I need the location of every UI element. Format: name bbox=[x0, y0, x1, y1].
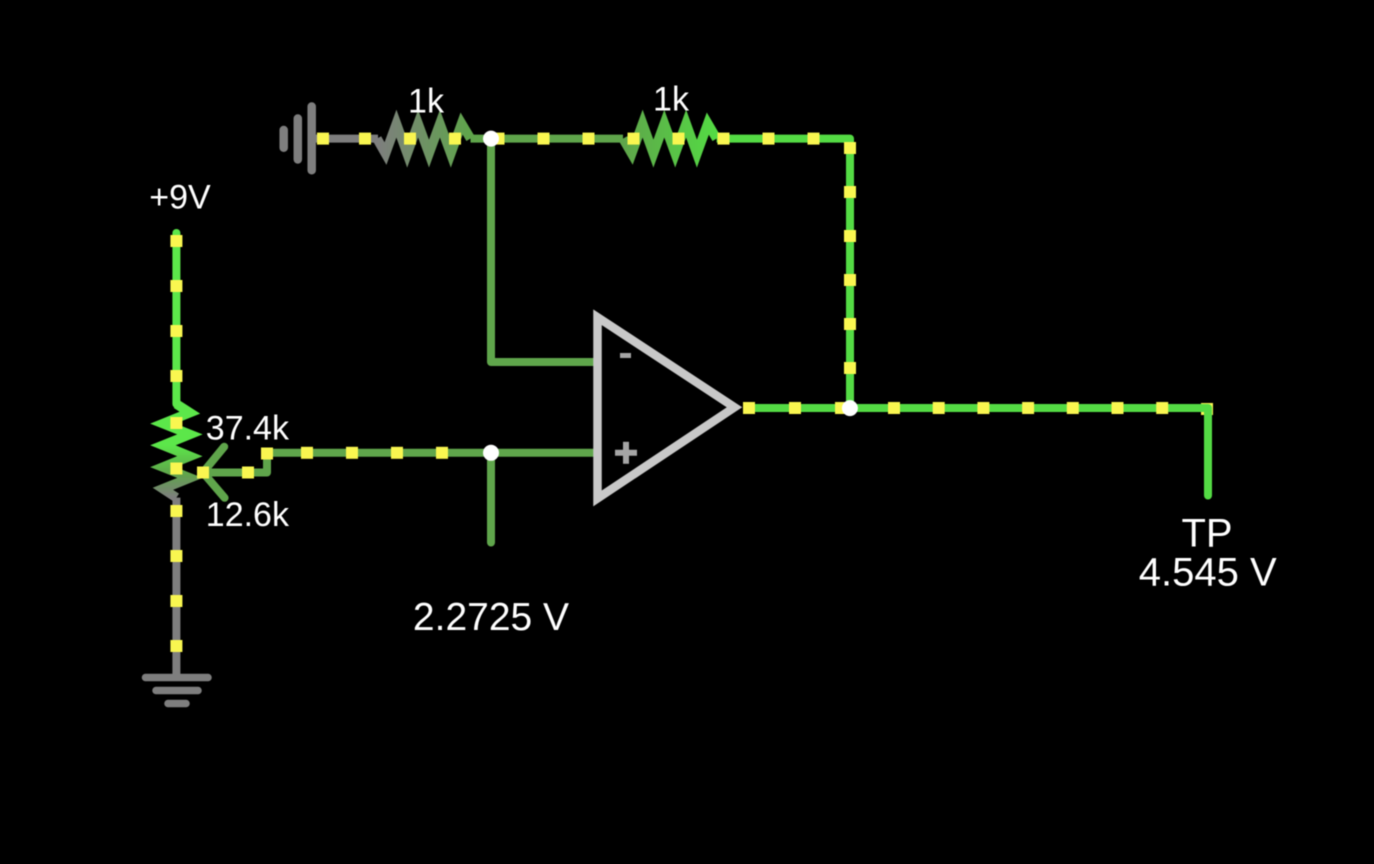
svg-text:1k: 1k bbox=[653, 80, 690, 118]
svg-text:12.6k: 12.6k bbox=[206, 496, 290, 534]
svg-text:2.2725 V: 2.2725 V bbox=[413, 596, 569, 639]
svg-text:TP: TP bbox=[1181, 512, 1232, 556]
svg-text:4.545 V: 4.545 V bbox=[1139, 551, 1277, 595]
svg-text:1k: 1k bbox=[408, 82, 445, 120]
svg-text:+9V: +9V bbox=[149, 178, 211, 216]
svg-text:37.4k: 37.4k bbox=[206, 409, 290, 447]
